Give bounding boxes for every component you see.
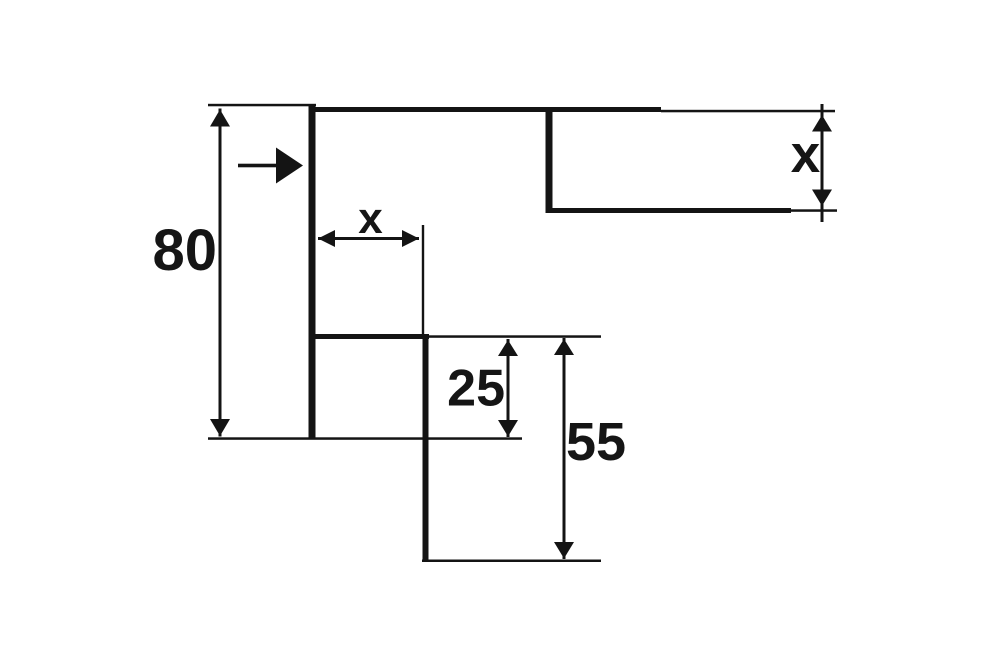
dimension line 80 (vertical)	[219, 109, 222, 437]
dimension line 25 (vertical)	[507, 339, 510, 437]
arrowhead 80 up	[210, 110, 230, 127]
profile right-step vertical segment (thick)	[546, 107, 553, 213]
profile top horizontal segment (thick)	[309, 107, 661, 112]
pointer arrow tail	[238, 164, 282, 168]
svg-text:x: x	[358, 194, 383, 243]
arrowhead 25 down	[498, 420, 518, 437]
svg-text:25: 25	[447, 360, 505, 418]
profile step horizontal segment (thick)	[309, 334, 429, 339]
dimension line x left (horizontal)	[318, 237, 419, 240]
svg-text:x: x	[791, 125, 821, 184]
dimension line 55 (vertical)	[563, 338, 566, 559]
extension line top-left	[208, 104, 316, 107]
arrowhead 55 up	[554, 339, 574, 355]
extension line step (right of step)	[429, 335, 601, 338]
extension line bottom of 55	[422, 560, 601, 563]
extension line x-left vertical	[422, 225, 424, 336]
svg-text:55: 55	[566, 412, 626, 472]
arrowhead x-right up	[812, 115, 832, 132]
arrowhead x-left left	[318, 230, 335, 247]
arrowhead x-right down	[812, 190, 832, 207]
extension line bottom-right tick	[791, 209, 837, 212]
profile lower-right horizontal segment (thick)	[546, 208, 791, 213]
profile left vertical segment (thick)	[309, 105, 316, 438]
profile bottom vertical segment (thick)	[423, 334, 429, 560]
arrowhead 25 up	[498, 340, 518, 356]
arrowhead x-left right	[402, 230, 419, 247]
extension line top-right	[661, 110, 835, 113]
dimension line x right (vertical)	[821, 104, 824, 222]
pointer arrowhead	[276, 148, 303, 184]
arrowhead 80 down	[210, 419, 230, 436]
svg-text:80: 80	[152, 218, 217, 283]
arrowhead 55 down	[554, 542, 574, 559]
extension line bottom of 80 and 25	[208, 437, 522, 440]
